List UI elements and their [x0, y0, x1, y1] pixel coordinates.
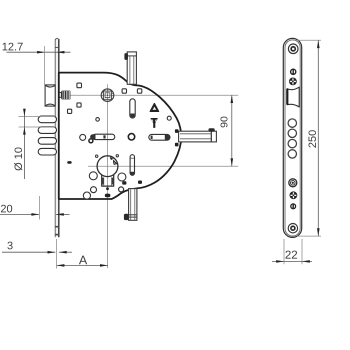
- centerline vertical through hub and cylinder: [107, 84, 109, 268]
- svg-text:3: 3: [7, 240, 13, 252]
- thick ring j: [128, 134, 134, 140]
- faceplate side: screw hole edge mark top: [55, 46, 59, 48]
- circle o2: [118, 173, 126, 181]
- deadbolt pin 4: [38, 148, 56, 155]
- dark square o3: [122, 181, 126, 184]
- deadbolt pin 3: [38, 138, 56, 145]
- dimension 3: [2, 240, 72, 253]
- ring h: [80, 134, 86, 140]
- svg-text:20: 20: [0, 203, 12, 215]
- deadbolt pin 1: [38, 116, 56, 123]
- faceplate side: bottom screw edge marks: [55, 226, 59, 236]
- front: latch cutout: [287, 87, 299, 107]
- front: cylinder screw hole: [289, 179, 297, 187]
- svg-text:250: 250: [307, 130, 319, 148]
- front: bolt hole 1: [288, 119, 296, 127]
- latch adjuster knurled screw: [59, 91, 71, 100]
- svg-text:Ø 10: Ø 10: [13, 147, 25, 171]
- svg-text:12.7: 12.7: [2, 41, 23, 53]
- latch bolt side view: [45, 85, 55, 106]
- small ring f: [167, 116, 171, 120]
- horizontal slot right: [149, 134, 170, 140]
- front: bottom screw hole: [288, 224, 297, 233]
- horizontal slot left: [90, 134, 115, 139]
- right pin P2: [179, 128, 217, 142]
- circle o1: [89, 172, 97, 180]
- small square hole e: [137, 89, 141, 93]
- svg-text:90: 90: [219, 116, 231, 128]
- vertical slot right of cylinder: [130, 155, 134, 176]
- circle o5: [83, 192, 90, 199]
- circle o4: [91, 187, 97, 193]
- dark rect p: [67, 161, 71, 164]
- dark rect l: [138, 181, 142, 184]
- dark ring i: [89, 139, 93, 143]
- tiny circle n1: [96, 155, 98, 157]
- dimension 20: [0, 196, 70, 220]
- small ring g: [96, 118, 100, 122]
- circle o6: [119, 187, 124, 192]
- dark square k1: [175, 129, 179, 133]
- front: bolt hole 2: [288, 129, 296, 137]
- small square hole d: [122, 89, 126, 93]
- dimension 22: [272, 239, 312, 264]
- bottom stud P3: [124, 189, 137, 221]
- euro cylinder hole: [97, 156, 118, 186]
- dark pad under cylinder: [105, 194, 111, 198]
- front: bolt hole 4: [288, 150, 296, 158]
- front: cross screw upper: [289, 78, 297, 86]
- lock case outline: [59, 73, 182, 199]
- dark dot under cylinder: [106, 187, 109, 190]
- small square hole b: [77, 103, 81, 107]
- funnel marker: [151, 118, 158, 128]
- spindle hub U1: [101, 89, 114, 102]
- front: cross screw lower: [290, 191, 298, 199]
- front: small slotted hole lower: [291, 204, 296, 209]
- faceplate front view: [283, 38, 301, 237]
- front: small slotted hole upper: [291, 69, 296, 74]
- dimension 12.7: [2, 41, 71, 85]
- centerline horizontal through cylinder / 90-dim bottom extension: [88, 165, 238, 167]
- faceplate side view: [55, 38, 59, 237]
- triangle marker: [150, 104, 158, 112]
- dimension 90: [219, 95, 234, 166]
- centerline horizontal through hub / 90-dim top extension: [59, 94, 238, 96]
- tiny circle n2: [116, 155, 118, 157]
- front: bolt hole 3: [288, 139, 296, 147]
- top pin P1: [124, 52, 136, 84]
- vertical slot under hub: [130, 99, 135, 118]
- dimension D10: [13, 109, 55, 179]
- small square hole a: [77, 83, 82, 88]
- front: top screw hole: [288, 44, 298, 54]
- small square hole c: [68, 109, 72, 113]
- dimension A: [57, 239, 108, 269]
- deadbolt pin 2: [38, 127, 56, 134]
- dark square k2: [175, 143, 179, 147]
- dimension 250: [296, 40, 322, 236]
- svg-text:22: 22: [285, 250, 298, 262]
